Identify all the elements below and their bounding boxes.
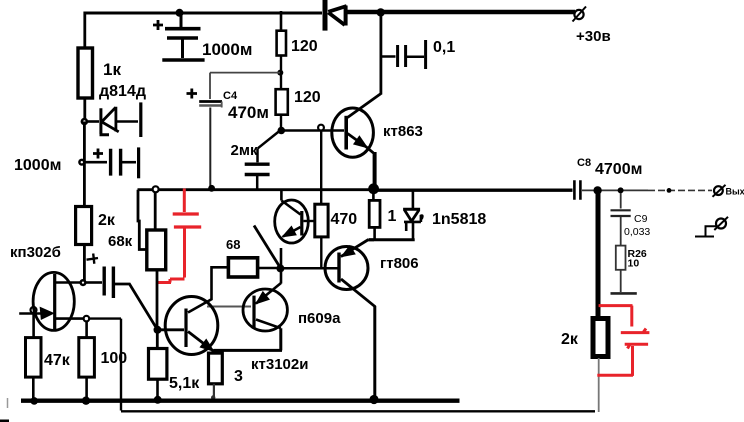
node J base junction <box>278 127 286 135</box>
node M open circle on middle wire <box>153 186 159 192</box>
capacitor C9 0,033 <box>611 193 651 246</box>
resistor R2 2к <box>76 207 116 245</box>
wire R13 bottom lead <box>598 358 600 412</box>
terminal aux (lower right) <box>695 217 728 237</box>
wire rail to R5 <box>280 11 283 31</box>
svg-text:С4: С4 <box>223 90 238 102</box>
node T С9 junction <box>618 187 624 193</box>
transistor Q1 кп302б (JFET) <box>10 244 83 331</box>
wire zener node to cap node <box>83 122 86 163</box>
wire node O down to R10 <box>156 330 159 349</box>
svg-text:1n5818: 1n5818 <box>432 211 486 228</box>
resistor R7 470 <box>315 204 357 237</box>
wire bottom connector 1/VD2 <box>369 238 415 241</box>
wire кт863 emitter down to node L <box>373 152 377 188</box>
svg-text:5,1к: 5,1к <box>169 375 200 392</box>
node R emitter-bus junction <box>369 395 378 404</box>
resistor R6 120 <box>276 89 321 115</box>
resistor R8 68к <box>108 230 166 270</box>
capacitor C3 1000м (top electrolytic) <box>153 13 252 60</box>
wire R6 to base node <box>280 115 282 131</box>
capacitor C10 red loop (highlight) <box>597 306 649 376</box>
capacitor C6 0,1 <box>381 39 455 69</box>
svg-text:2к: 2к <box>98 212 116 229</box>
diode D1 (top rail, pointing left) <box>325 0 347 31</box>
resistor R26 10 <box>616 246 647 270</box>
capacitor C1 1000м (left horizontal electrolytic) <box>14 147 139 178</box>
svg-text:68к: 68к <box>108 233 133 250</box>
polarity x mark <box>87 254 99 264</box>
svg-text:+30в: +30в <box>576 28 611 45</box>
node F source <box>84 316 90 322</box>
wire Q3 emitter to node O2 <box>280 248 283 268</box>
node C zener junction <box>81 118 89 126</box>
capacitor C2 input (plates) <box>86 267 113 299</box>
node P R10-bus <box>154 396 162 404</box>
wire base to кт863 <box>281 129 344 132</box>
svg-text:68: 68 <box>226 237 240 252</box>
node K open circle on base wire <box>318 125 324 131</box>
wire source right then down to lower bus <box>89 319 121 411</box>
wire R10 bottom lead <box>156 379 159 398</box>
capacitor C4 470м <box>187 89 269 189</box>
svg-text:470: 470 <box>331 211 358 228</box>
node U small junction <box>667 188 672 193</box>
transistor Q5 кт3102и <box>158 297 308 374</box>
resistor R13 2к (output) <box>561 319 608 357</box>
wire node O2 to гт806 base <box>280 267 337 270</box>
wire left end bend down to R8 68к <box>138 190 147 250</box>
node H R4-bus <box>82 397 90 405</box>
svg-text:120: 120 <box>291 38 318 55</box>
transistor Q2 кт863 <box>332 94 423 158</box>
wire Q3 collector to middle wire <box>280 189 283 201</box>
transistor Q3 (upper middle, unlabeled) <box>275 200 315 243</box>
resistor R11 3 <box>209 353 244 385</box>
wire middle horizontal left part <box>138 188 375 191</box>
zener diode VD1 д814д <box>88 102 141 137</box>
svg-text:кт3102и: кт3102и <box>251 356 308 373</box>
wire top rail right thick segment <box>347 10 575 15</box>
node E drain <box>79 279 86 286</box>
wire R7 bottom down <box>320 237 322 268</box>
wire cap node to R2 <box>83 162 86 206</box>
node I 120/C4 junction <box>277 70 283 76</box>
wire 1k top lead <box>83 12 86 49</box>
svg-text:4700м: 4700м <box>595 161 642 178</box>
corner mark bottom-left <box>0 420 9 422</box>
wire гт806 collector to 1-resistor bottom rail <box>369 238 375 241</box>
svg-text:100: 100 <box>101 350 128 367</box>
wire 1k bottom lead <box>83 98 86 122</box>
resistor R5 120 <box>277 31 318 56</box>
wire кт863 collector up to rail <box>379 11 382 95</box>
svg-text:47к: 47к <box>44 352 71 369</box>
wire С8 node down (thick) <box>596 190 601 316</box>
wire input cap diagonal to base node <box>115 284 158 330</box>
node Q R11-bus small <box>211 395 215 399</box>
capacitor C5 2мк <box>231 130 281 189</box>
capacitor C7 red (highlight) <box>156 189 201 283</box>
ground bus lower line <box>121 410 595 412</box>
svg-text:120: 120 <box>294 89 321 106</box>
resistor R12 1 <box>369 192 396 239</box>
wire gate to R3 <box>32 312 35 338</box>
svg-text:2мк: 2мк <box>231 142 258 159</box>
wire гт806 emitter down to bus <box>373 306 376 399</box>
svg-text:кт863: кт863 <box>383 123 423 140</box>
diode VD2 1n5818 <box>403 191 486 239</box>
svg-text:1000м: 1000м <box>14 157 61 174</box>
node G R3-bus <box>30 397 38 405</box>
ground symbol (R26) <box>611 270 637 294</box>
svg-text:1к: 1к <box>103 60 121 79</box>
terminal +30в <box>573 7 611 46</box>
capacitor C8 4700м <box>574 157 712 200</box>
svg-text:п609а: п609а <box>298 310 341 327</box>
wire R4 bottom lead <box>85 377 88 399</box>
svg-text:10: 10 <box>628 258 640 270</box>
wire п609а bottom to 3-resistor rail <box>214 328 283 350</box>
svg-text:С8: С8 <box>577 157 591 169</box>
svg-text:д814д: д814д <box>99 83 146 100</box>
node A rail-cap junction <box>176 9 184 17</box>
svg-text:0,1: 0,1 <box>433 39 455 56</box>
terminal Вых <box>713 185 744 197</box>
node O2 junction <box>276 264 284 272</box>
svg-text:470м: 470м <box>228 103 269 122</box>
wire п609а base lead <box>207 306 251 308</box>
node N C4 junction on wire <box>208 185 215 192</box>
svg-text:0,033: 0,033 <box>624 226 650 238</box>
transistor Q6 гт806 <box>325 240 419 307</box>
wire R3 bottom lead <box>32 377 35 399</box>
node L emitter junction <box>368 183 379 194</box>
resistor R3 47к <box>26 338 71 378</box>
resistor R9 68 <box>212 237 277 277</box>
node S С8 output junction <box>593 186 601 194</box>
wire R11 bottom lead <box>213 384 215 397</box>
node B rail-kt863 junction <box>377 8 385 16</box>
wire R8 bottom to base node O <box>156 270 159 330</box>
transistor Q4 п609а <box>243 283 341 331</box>
svg-text:гт806: гт806 <box>380 255 419 272</box>
wire top rail left segment <box>84 12 322 15</box>
svg-text:2к: 2к <box>561 331 579 348</box>
svg-text:1: 1 <box>388 208 397 225</box>
wire R2 bottom lead with x mark <box>83 245 86 282</box>
wire R5 to node I <box>280 56 282 90</box>
wire node K down to R7 <box>320 131 322 205</box>
wire diagonal long (2мк area to node O2) <box>254 226 280 268</box>
svg-text:3: 3 <box>234 368 243 385</box>
wire п609а top to node O2 <box>280 268 283 284</box>
wire source to R4 <box>85 321 88 338</box>
wire middle horizontal right part <box>374 188 573 191</box>
svg-text:С9: С9 <box>634 213 648 225</box>
node D input cap junction <box>78 159 85 166</box>
wire C4 top link <box>210 73 280 99</box>
resistor R10 5,1к <box>149 349 201 393</box>
resistor R4 100 <box>79 338 127 378</box>
ground bus main <box>21 399 460 403</box>
svg-text:1000м: 1000м <box>202 40 252 59</box>
wire node M down to R8 top <box>154 192 157 230</box>
wire 68 left lead down to Q5 collector <box>188 266 212 313</box>
node O base junction dot <box>154 326 162 334</box>
svg-text:кп302б: кп302б <box>10 244 61 261</box>
svg-text:Вых: Вых <box>726 187 744 197</box>
resistor R1 1к <box>78 48 146 100</box>
